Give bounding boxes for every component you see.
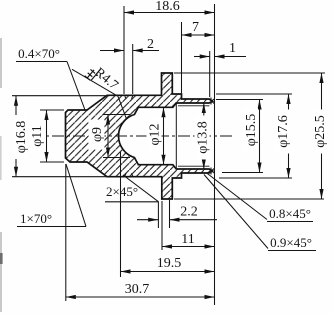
svg-text:0.8×45°: 0.8×45° xyxy=(269,206,311,221)
dim 1 xyxy=(194,56,210,58)
svg-text:30.7: 30.7 xyxy=(125,282,150,297)
dim phi17.6 xyxy=(216,93,292,95)
dim phi15.5 xyxy=(216,99,263,101)
svg-text:φ9: φ9 xyxy=(90,127,105,142)
leader 0.8x45 xyxy=(206,173,267,220)
part body section outline (hatched cross-section) xyxy=(66,73,213,199)
svg-text:19.5: 19.5 xyxy=(157,256,182,271)
internal thread end line and crest lines (phi13.8 threaded bore) xyxy=(175,103,177,169)
dim phi25.5 xyxy=(174,72,325,74)
dim 2.2 xyxy=(137,219,158,221)
svg-text:φ13.8: φ13.8 xyxy=(196,121,211,154)
svg-text:φ11: φ11 xyxy=(30,125,45,147)
svg-text:φ12: φ12 xyxy=(148,123,163,145)
svg-text:7: 7 xyxy=(192,20,199,35)
dim 18.6 xyxy=(124,12,215,14)
svg-text:2×45°: 2×45° xyxy=(106,184,138,199)
dim phi9 xyxy=(103,114,130,116)
dim 19.5 xyxy=(121,271,215,273)
dim 11 xyxy=(162,246,215,248)
dim 7 xyxy=(182,34,215,36)
scan edge artifacts xyxy=(0,38,2,88)
svg-text:11: 11 xyxy=(181,232,194,247)
leader 0.9x45 xyxy=(204,175,268,249)
extension lines top xyxy=(123,6,125,94)
dim 30.7 xyxy=(66,296,215,298)
dim phi11 xyxy=(40,109,64,111)
svg-text:18.6: 18.6 xyxy=(155,0,180,14)
dim phi16.8 xyxy=(12,95,107,97)
svg-text:2: 2 xyxy=(147,37,154,52)
svg-text:φ17.6: φ17.6 xyxy=(276,115,291,148)
extension lines bottom xyxy=(157,202,159,228)
svg-text:1: 1 xyxy=(229,41,236,56)
svg-text:φ16.8: φ16.8 xyxy=(14,121,29,154)
svg-text:1×70°: 1×70° xyxy=(20,211,52,226)
centerline xyxy=(31,135,232,137)
dim 2 xyxy=(100,50,124,52)
dim phi12 xyxy=(163,107,165,164)
svg-text:0.4×70°: 0.4×70° xyxy=(18,46,60,61)
svg-text:2.2: 2.2 xyxy=(180,205,198,220)
svg-text:φ25.5: φ25.5 xyxy=(313,115,328,148)
dim phi13.8 xyxy=(203,103,205,169)
right tip chamfer lines xyxy=(210,98,212,105)
svg-text:φ15.5: φ15.5 xyxy=(244,114,259,147)
groove 2x45 edge ticks xyxy=(125,95,126,99)
svg-text:0.9×45°: 0.9×45° xyxy=(270,235,312,250)
leader ball R4.7 (sphere) xyxy=(72,69,118,96)
